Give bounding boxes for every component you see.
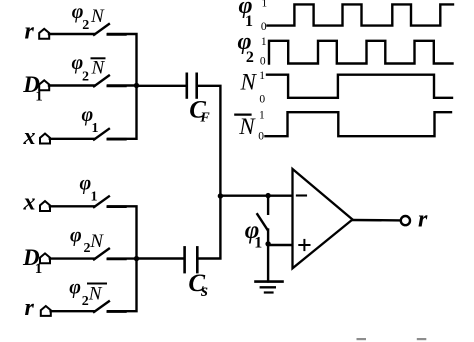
ground symbol xyxy=(256,282,283,293)
wire S3 to bus corner xyxy=(108,86,137,139)
capacitor CS left plate xyxy=(183,247,186,272)
svg-text:N: N xyxy=(91,58,106,79)
node D junction dot xyxy=(265,241,270,246)
svg-text:1: 1 xyxy=(259,110,265,122)
wire node D to op-amp non-inverting input xyxy=(268,244,292,246)
switch S4 arm xyxy=(94,196,109,207)
switch S5 fixed contact bar xyxy=(108,258,126,261)
waveform phi2 trace xyxy=(269,41,453,64)
switch S5 arm xyxy=(94,249,109,260)
svg-text:N: N xyxy=(240,70,258,95)
svg-text:1: 1 xyxy=(245,13,253,30)
svg-text:0: 0 xyxy=(260,55,266,67)
switch S3 arm xyxy=(94,129,109,140)
switch S3 fixed contact bar xyxy=(108,138,126,141)
svg-text:N: N xyxy=(89,231,104,252)
wire S4 to bus corner xyxy=(108,206,137,258)
svg-text:1: 1 xyxy=(259,70,265,82)
capacitor CF left plate xyxy=(186,74,189,98)
svg-text:N: N xyxy=(90,6,105,27)
wire node D to ground xyxy=(267,244,269,282)
svg-text:φ: φ xyxy=(69,277,81,299)
wire r (top input) to switch S1 xyxy=(49,33,95,35)
terminal r (top input) xyxy=(39,29,49,39)
summing node dot xyxy=(218,193,223,198)
wire r (bottom input) to switch S6 xyxy=(51,310,95,312)
svg-text:x: x xyxy=(23,124,36,150)
svg-text:2: 2 xyxy=(82,70,89,85)
wire S1 to bus corner xyxy=(108,34,137,86)
faint cropped caption mark left xyxy=(357,338,367,340)
wire S5 to node xyxy=(108,257,137,259)
wire S2 to node xyxy=(108,84,137,86)
wire node A to CF xyxy=(137,85,186,87)
waveform phi1 trace xyxy=(268,4,454,25)
capacitor CF right plate xyxy=(195,74,198,98)
switch S2 arm xyxy=(94,76,109,87)
op-amp minus sign xyxy=(297,194,306,196)
svg-text:2: 2 xyxy=(82,18,89,33)
node C junction dot xyxy=(265,193,270,198)
overline of Nbar label row2 xyxy=(92,57,105,59)
svg-text:1: 1 xyxy=(92,121,99,136)
op-amp plus sign xyxy=(299,240,309,250)
node A junction dot xyxy=(134,83,139,88)
switch S4 fixed contact bar xyxy=(108,205,126,208)
svg-text:φ: φ xyxy=(70,225,82,247)
switch S7 (phi1) top stub xyxy=(267,196,269,214)
wire S6 to bus corner xyxy=(108,259,137,312)
svg-text:1: 1 xyxy=(261,36,267,48)
svg-text:N: N xyxy=(88,284,103,305)
svg-text:1: 1 xyxy=(262,0,268,10)
wire CS to right bus xyxy=(198,196,220,259)
switch S6 fixed contact bar xyxy=(108,310,126,313)
terminal D1 (bottom input) xyxy=(40,253,50,263)
switch S6 arm xyxy=(94,301,109,312)
switch S1 arm xyxy=(94,24,109,35)
svg-text:s: s xyxy=(200,280,208,300)
op-amp U1 triangle xyxy=(293,169,353,268)
terminal r (output) xyxy=(401,216,410,225)
faint cropped caption mark right xyxy=(417,338,427,340)
wire op-amp output xyxy=(353,219,401,222)
terminal x (bottom input) xyxy=(40,201,50,211)
wire D1 (bottom input) to switch S5 xyxy=(50,257,95,259)
switch S7 bottom stub xyxy=(267,230,269,244)
svg-text:1: 1 xyxy=(254,235,262,252)
svg-text:1: 1 xyxy=(35,261,43,277)
svg-text:0: 0 xyxy=(258,131,264,143)
wire summing node to op-amp inverting input xyxy=(220,194,292,196)
svg-text:2: 2 xyxy=(246,49,254,66)
svg-text:x: x xyxy=(23,190,36,216)
waveform Nbar trace xyxy=(266,112,452,136)
overline of waveform Nbar label xyxy=(235,113,250,115)
svg-text:2: 2 xyxy=(82,294,89,309)
wire x (bottom input) to switch S4 xyxy=(50,205,95,207)
wire D1 (top input) to switch S2 xyxy=(49,84,95,86)
svg-text:0: 0 xyxy=(261,21,267,33)
wire CF to right bus xyxy=(198,86,221,196)
capacitor CS right plate xyxy=(196,247,199,272)
waveform N trace xyxy=(267,75,452,98)
terminal D1 (top input) xyxy=(39,80,49,90)
svg-text:0: 0 xyxy=(259,93,265,105)
svg-text:1: 1 xyxy=(35,89,43,105)
switch S7 arm xyxy=(257,214,267,230)
svg-text:1: 1 xyxy=(91,190,98,205)
terminal r (bottom input) xyxy=(41,306,51,316)
svg-text:φ: φ xyxy=(80,172,92,194)
switch S1 fixed contact bar xyxy=(108,33,126,36)
wire x (top input) to switch S3 xyxy=(50,138,95,140)
svg-text:r: r xyxy=(25,295,35,321)
terminal x (top input) xyxy=(40,134,50,144)
svg-text:F: F xyxy=(199,111,210,126)
switch S2 fixed contact bar xyxy=(108,85,126,88)
svg-text:r: r xyxy=(418,206,428,232)
svg-text:N: N xyxy=(238,114,256,139)
wire node B to CS xyxy=(137,257,184,259)
svg-text:r: r xyxy=(25,18,35,44)
overline of Nbar label row6 xyxy=(88,283,106,285)
node B junction dot xyxy=(134,256,139,261)
